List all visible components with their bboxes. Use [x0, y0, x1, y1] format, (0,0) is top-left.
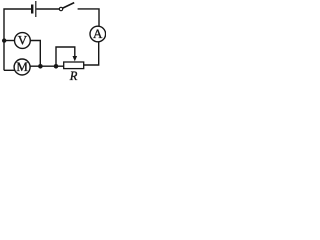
svg-text:M: M — [16, 59, 28, 74]
svg-text:A: A — [93, 26, 103, 41]
svg-text:R: R — [69, 69, 78, 82]
svg-text:V: V — [18, 32, 28, 47]
